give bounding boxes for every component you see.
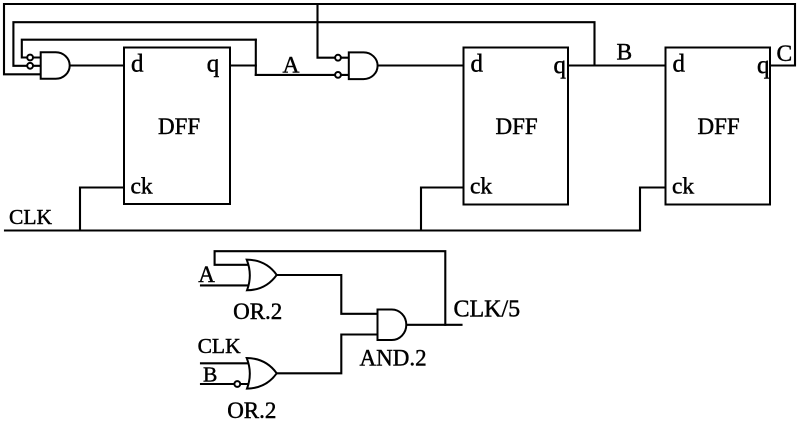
svg-text:d: d: [131, 51, 144, 78]
svg-text:OR.2: OR.2: [227, 398, 276, 423]
svg-text:DFF: DFF: [698, 114, 740, 139]
svg-text:q: q: [757, 52, 770, 79]
svg-text:CLK: CLK: [198, 334, 241, 358]
svg-text:B: B: [617, 40, 633, 66]
svg-text:ck: ck: [672, 174, 694, 200]
svg-text:CLK/5: CLK/5: [454, 297, 521, 323]
svg-text:A: A: [198, 262, 215, 287]
svg-text:d: d: [673, 51, 686, 78]
svg-text:B: B: [203, 363, 217, 387]
svg-text:AND.2: AND.2: [360, 346, 427, 371]
svg-text:q: q: [207, 51, 220, 78]
svg-text:ck: ck: [131, 174, 153, 200]
svg-text:DFF: DFF: [158, 114, 200, 139]
svg-text:DFF: DFF: [496, 114, 538, 139]
svg-text:d: d: [471, 51, 484, 78]
svg-text:CLK: CLK: [9, 205, 52, 229]
svg-text:C: C: [777, 41, 793, 67]
svg-text:A: A: [283, 52, 300, 78]
svg-text:OR.2: OR.2: [233, 299, 282, 324]
svg-text:ck: ck: [470, 174, 492, 200]
svg-text:q: q: [554, 52, 567, 79]
